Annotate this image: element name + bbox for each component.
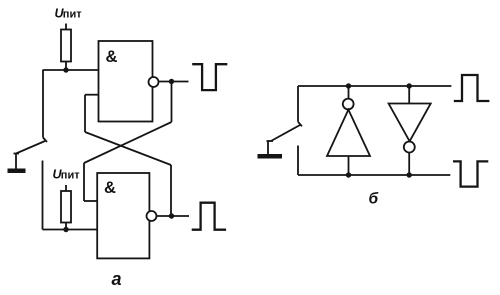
wire U1 output <box>159 81 189 83</box>
NAND gate U1 (top) <box>99 41 153 122</box>
switch SB lever <box>267 125 301 155</box>
wire cross diagonal U2out to U1in <box>85 132 171 165</box>
wire top rail (circuit b) <box>298 85 451 87</box>
wire bottom input rail <box>43 229 98 231</box>
svg-text:а: а <box>112 269 122 289</box>
NAND gate U2 (bottom) <box>97 173 149 258</box>
node R2-output junction <box>63 227 68 232</box>
waveform W4 negative pulse (bottom output b) <box>453 161 488 186</box>
switch SB upper contact <box>298 86 302 126</box>
inverter D1 output bubble <box>343 99 354 110</box>
ground (circuit a) <box>8 169 26 174</box>
node D2 top junction <box>407 83 412 88</box>
U2 output bubble <box>147 211 157 221</box>
svg-text:пит: пит <box>63 9 82 21</box>
wire up from diagonal to U1 input 2 <box>84 95 86 132</box>
switch SA lever <box>14 141 46 169</box>
wire U1 output feedback down <box>171 82 173 123</box>
node R1-output junction <box>63 67 68 72</box>
wire up from U2 output to diagonal <box>170 165 172 216</box>
wire D2 output down <box>408 153 410 175</box>
wire down to U2 input 1 <box>83 163 85 201</box>
inverter D2 (points down) <box>389 104 431 142</box>
switch SA upper contact <box>43 70 47 142</box>
wire D1 input down <box>348 156 350 175</box>
label Uпит (top supply) <box>55 7 83 21</box>
node D1 top junction <box>346 83 351 88</box>
node D1 bottom junction <box>346 172 351 177</box>
wire into U1 input 2 <box>85 94 99 96</box>
switch SB lower contact <box>297 146 299 176</box>
resistor R1 <box>61 24 71 71</box>
inverter D2 output bubble <box>404 142 415 153</box>
ground (circuit b) <box>258 154 283 159</box>
node U2 output junction <box>169 213 174 218</box>
waveform W3 positive pulse (top output b) <box>454 75 490 101</box>
wire bottom rail (circuit b) <box>298 174 450 176</box>
node D2 bottom junction <box>407 172 412 177</box>
svg-text:пит: пит <box>61 170 80 182</box>
wire top input rail <box>43 69 99 71</box>
wire D2 input up <box>408 86 410 104</box>
resistor R2 <box>61 185 71 230</box>
U1 output bubble <box>149 77 159 87</box>
inverter D1 (points up) <box>327 110 370 156</box>
label Uпит (bottom supply) <box>53 168 81 182</box>
node U1 output junction <box>169 79 174 84</box>
waveform W1 negative pulse (top output a) <box>192 64 227 90</box>
wire cross diagonal U1out to U2in <box>84 122 172 163</box>
svg-text:б: б <box>369 191 379 208</box>
wire D1 output up <box>348 86 350 99</box>
wire U2 output <box>157 215 190 217</box>
svg-text:&: & <box>106 48 118 66</box>
wire into U2 input 1 <box>84 200 97 202</box>
svg-text:&: & <box>104 179 116 197</box>
switch SA lower contact <box>42 161 44 230</box>
waveform W2 positive pulse (bottom output a) <box>192 203 226 230</box>
